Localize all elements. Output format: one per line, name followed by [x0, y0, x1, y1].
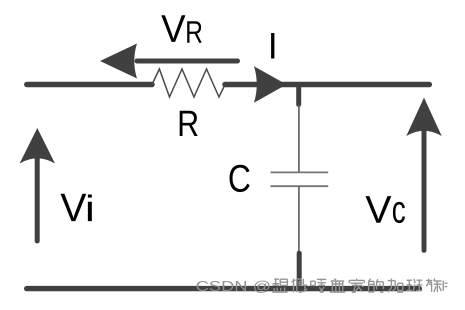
- label Vc: [366, 196, 392, 223]
- label VR: [161, 15, 201, 43]
- label I: [271, 33, 274, 59]
- wire bottom: [27, 286, 420, 291]
- label R: [180, 111, 198, 136]
- arrowhead I (current arrow on top wire, pointing right): [254, 66, 287, 102]
- arrow Vc (capacitor voltage arrow, pointing up): [406, 98, 441, 251]
- label C: [229, 165, 249, 192]
- arrow Vi (input voltage arrow, pointing up): [20, 128, 55, 241]
- node junction top (thick stub below top wire): [296, 85, 301, 105]
- capacitor C bottom plate: [271, 185, 329, 187]
- arrow VR (current-direction arrow for VR, pointing left): [100, 44, 238, 79]
- resistor R: [152, 69, 225, 97]
- wire thin vertical (junction to capacitor top plate): [298, 105, 300, 173]
- label Vi: [61, 194, 87, 221]
- wire top-right segment: [225, 82, 429, 88]
- wire thin vertical (capacitor bottom plate to bottom junction): [298, 186, 300, 251]
- watermark fake hanzi glyphs: [272, 279, 447, 293]
- capacitor C top plate: [271, 171, 329, 173]
- wire top-left segment: [27, 82, 152, 88]
- node junction bottom (thick stub above bottom wire): [297, 253, 302, 287]
- watermark CSDN @: [197, 281, 209, 291]
